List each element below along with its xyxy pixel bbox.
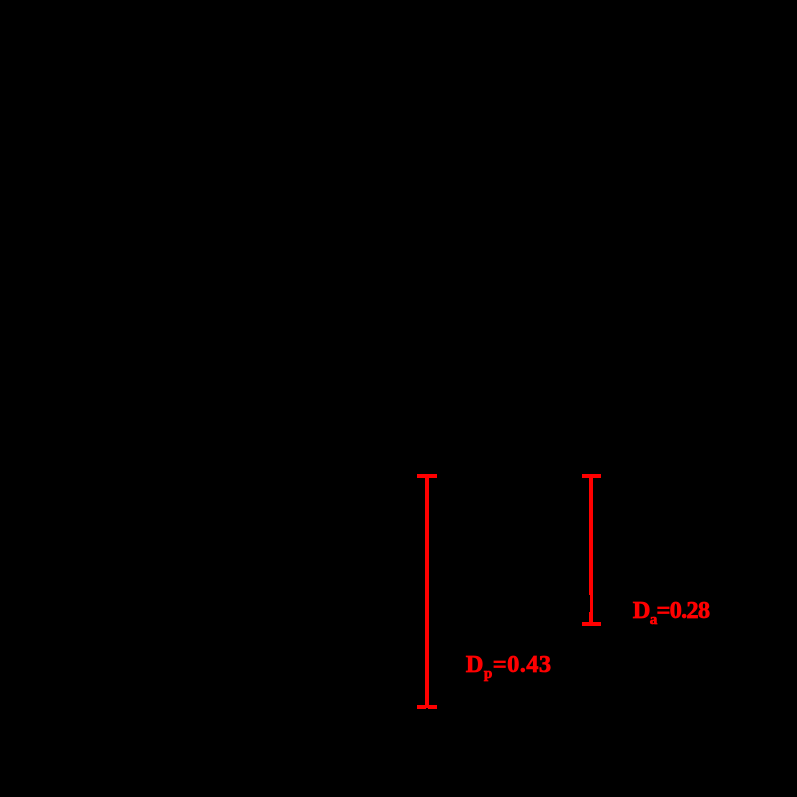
- error bar D_p: top cap: [417, 474, 437, 478]
- label D_a = 0.28: [633, 597, 710, 629]
- error bar D_p: stem: [425, 474, 429, 709]
- label D_p = 0.43: [466, 651, 552, 683]
- error bar D_a: stem: [589, 474, 593, 626]
- black tick notch over bottom cap: [426, 708, 429, 709]
- error bar D_a: bottom cap: [582, 622, 601, 626]
- error bar D_a: top cap: [582, 474, 601, 478]
- error bar D_p: bottom cap: [417, 705, 437, 709]
- black curve overlap on D_a stem left edge: [589, 595, 590, 612]
